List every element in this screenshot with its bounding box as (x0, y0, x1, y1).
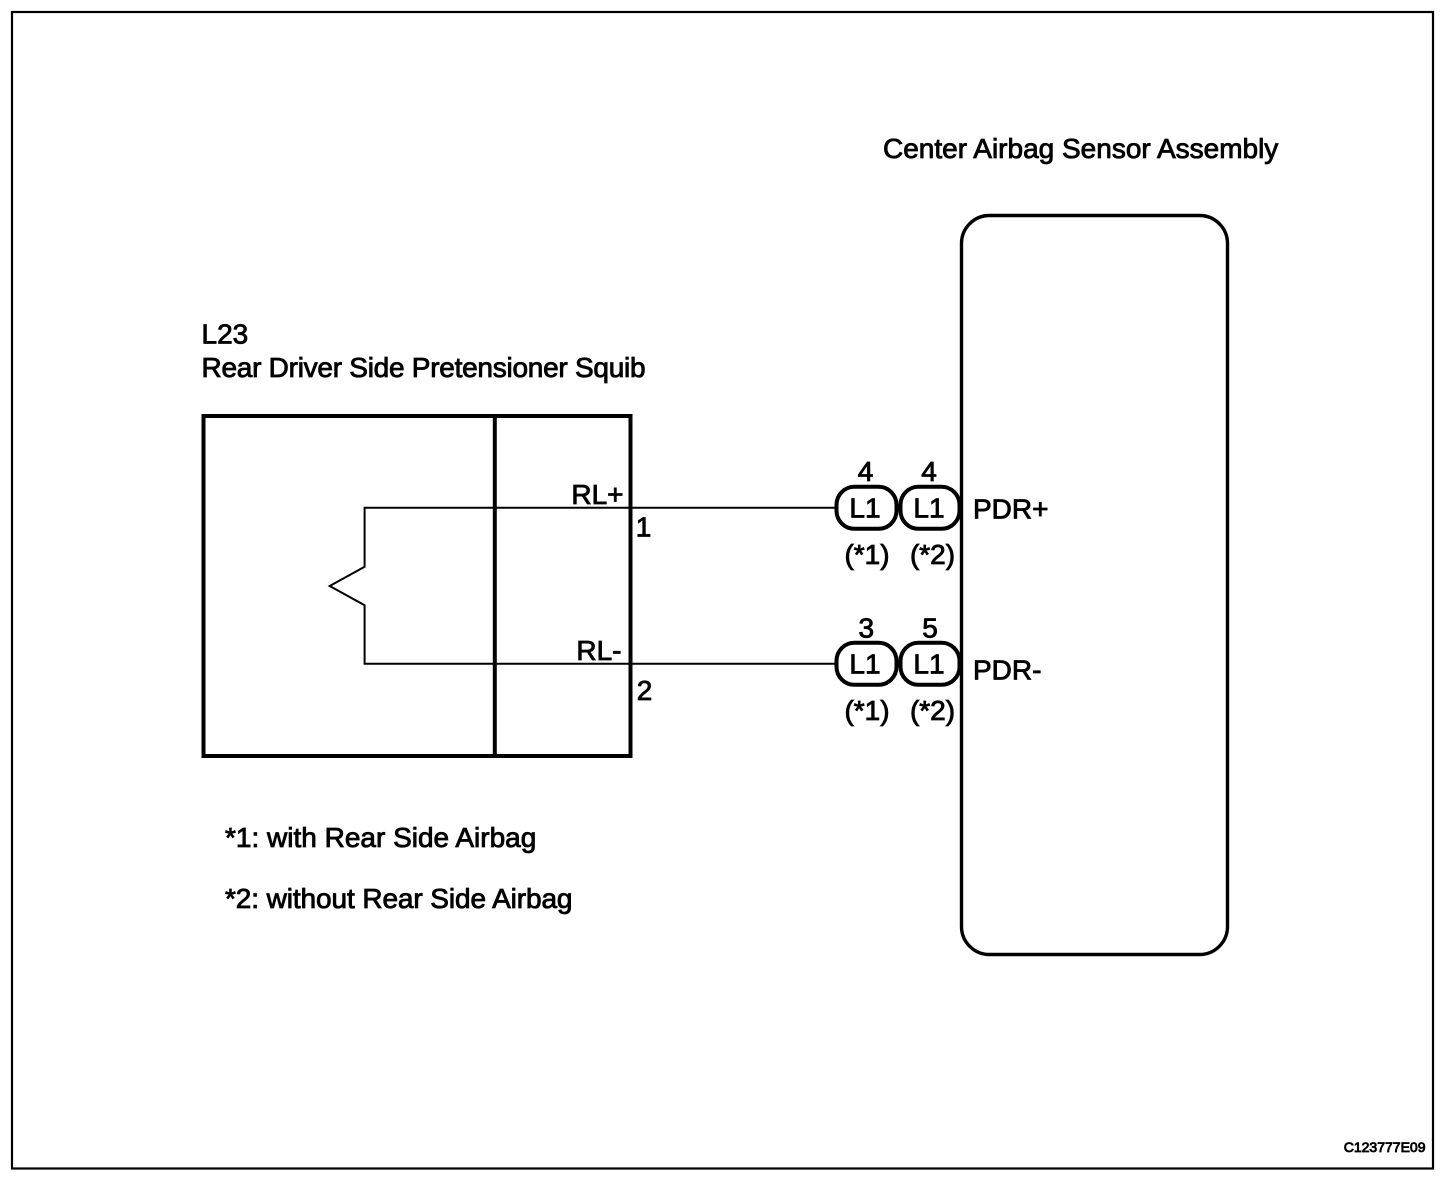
svg-text:Rear Driver Side Pretensioner: Rear Driver Side Pretensioner Squib (202, 352, 646, 383)
svg-text:5: 5 (922, 612, 938, 643)
svg-text:RL-: RL- (576, 635, 621, 666)
svg-text:(*1): (*1) (844, 539, 889, 570)
svg-text:L23: L23 (202, 319, 249, 350)
svg-text:2: 2 (637, 675, 653, 706)
svg-text:PDR+: PDR+ (973, 494, 1048, 525)
svg-text:L1: L1 (913, 492, 944, 523)
connector divider of L23 box (493, 414, 497, 758)
svg-text:4: 4 (921, 456, 937, 487)
svg-text:(*1): (*1) (844, 695, 889, 726)
svg-text:3: 3 (859, 612, 875, 643)
connector oval L1 (*1) pin 4 (837, 487, 897, 529)
svg-text:RL+: RL+ (571, 479, 623, 510)
connector oval L1 (*2) pin 5 (901, 643, 960, 685)
connector oval L1 (*2) pin 4 (901, 487, 960, 529)
component L23 Rear Driver Side Pretensioner Squib (box) (204, 416, 631, 756)
svg-text:4: 4 (858, 456, 874, 487)
svg-text:L1: L1 (849, 492, 880, 523)
svg-text:Center Airbag Sensor Assembly: Center Airbag Sensor Assembly (883, 133, 1278, 164)
svg-text:(*2): (*2) (910, 539, 955, 570)
svg-text:1: 1 (636, 511, 652, 542)
svg-text:L1: L1 (849, 649, 880, 680)
svg-text:*2: without Rear Side Airbag: *2: without Rear Side Airbag (225, 883, 572, 914)
svg-text:C123777E09: C123777E09 (1344, 1139, 1426, 1155)
svg-text:PDR-: PDR- (973, 655, 1041, 686)
svg-text:*1: with Rear Side Airbag: *1: with Rear Side Airbag (225, 822, 536, 853)
svg-text:(*2): (*2) (910, 695, 955, 726)
svg-text:L1: L1 (913, 649, 944, 680)
component Center Airbag Sensor Assembly (rounded box) (962, 216, 1228, 955)
connector oval L1 (*1) pin 3 (837, 643, 897, 685)
squib element (wire loop with chevron) (330, 508, 835, 664)
